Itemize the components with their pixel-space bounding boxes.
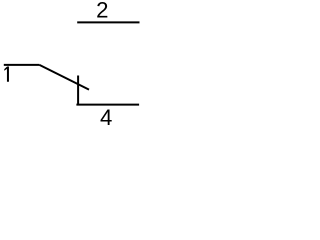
pin 4 contact bar — [77, 76, 79, 105]
pin 1 label — [4, 67, 9, 82]
svg-text:4: 4 — [100, 105, 112, 127]
pin 2 lead wire — [77, 21, 139, 23]
switch arm wire — [39, 65, 89, 90]
pin 4 lead wire — [76, 104, 139, 106]
pin 1 lead wire — [4, 64, 40, 66]
switch SPDT symbol fragment — [0, 0, 145, 127]
svg-text:2: 2 — [96, 0, 108, 23]
